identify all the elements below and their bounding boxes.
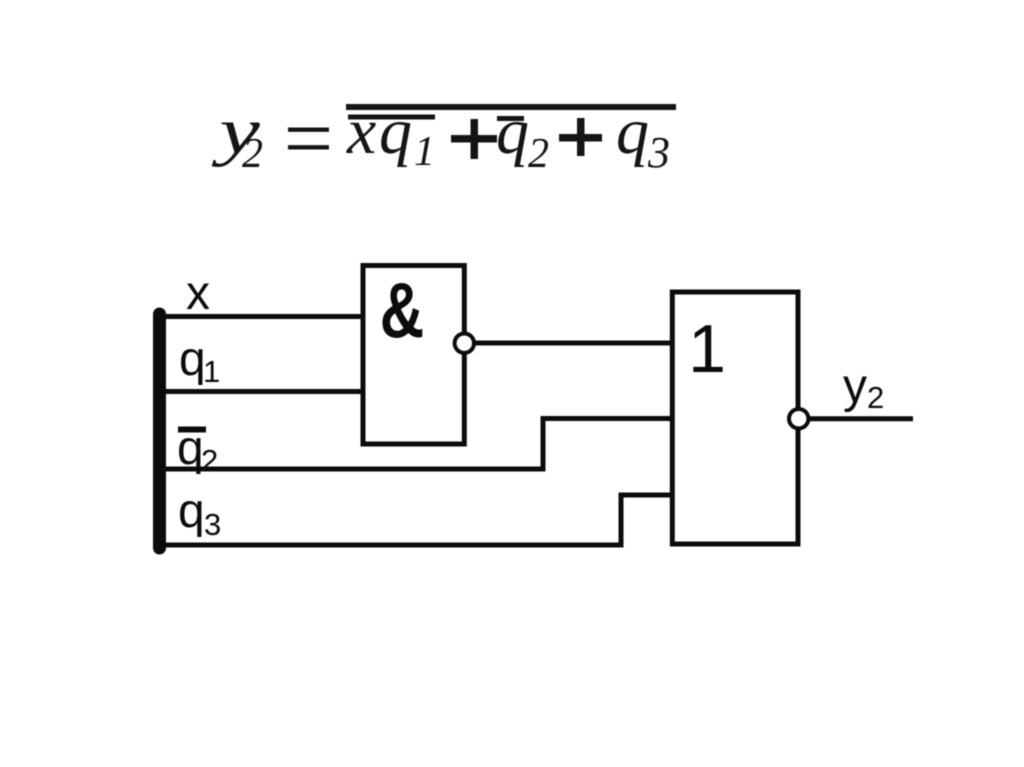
svg-text:2: 2: [201, 443, 218, 478]
svg-text:&: &: [380, 266, 424, 354]
svg-text:1: 1: [203, 354, 220, 389]
svg-text:y: y: [843, 360, 867, 413]
output wire y2: [808, 416, 913, 421]
label q2-bar: [178, 427, 206, 433]
svg-text:2: 2: [242, 131, 263, 177]
svg-text:1: 1: [688, 311, 726, 387]
svg-text:3: 3: [647, 128, 670, 177]
wire q3: [158, 495, 675, 545]
svg-text:q: q: [179, 333, 206, 386]
svg-text:x: x: [186, 267, 210, 320]
input bus bar: [153, 314, 166, 548]
inverter bubble on U1 output: [455, 334, 474, 353]
OR gate U2: [672, 292, 798, 544]
svg-text:1: 1: [414, 129, 435, 175]
wire x: [158, 314, 366, 319]
wire q1: [158, 389, 366, 394]
inverter bubble on U2 output: [789, 409, 808, 428]
wire q2: [158, 419, 675, 470]
svg-text:3: 3: [204, 507, 221, 542]
svg-text:2: 2: [528, 131, 549, 177]
AND gate U1: [363, 266, 464, 445]
svg-text:q: q: [178, 485, 205, 538]
svg-text:2: 2: [867, 380, 884, 415]
wire U1 output to U2 input: [464, 341, 675, 346]
formula y2 = NOT( NOT(x q1) + NOT(q2) + q3 ): [211, 91, 676, 188]
svg-text:=: =: [278, 91, 337, 188]
